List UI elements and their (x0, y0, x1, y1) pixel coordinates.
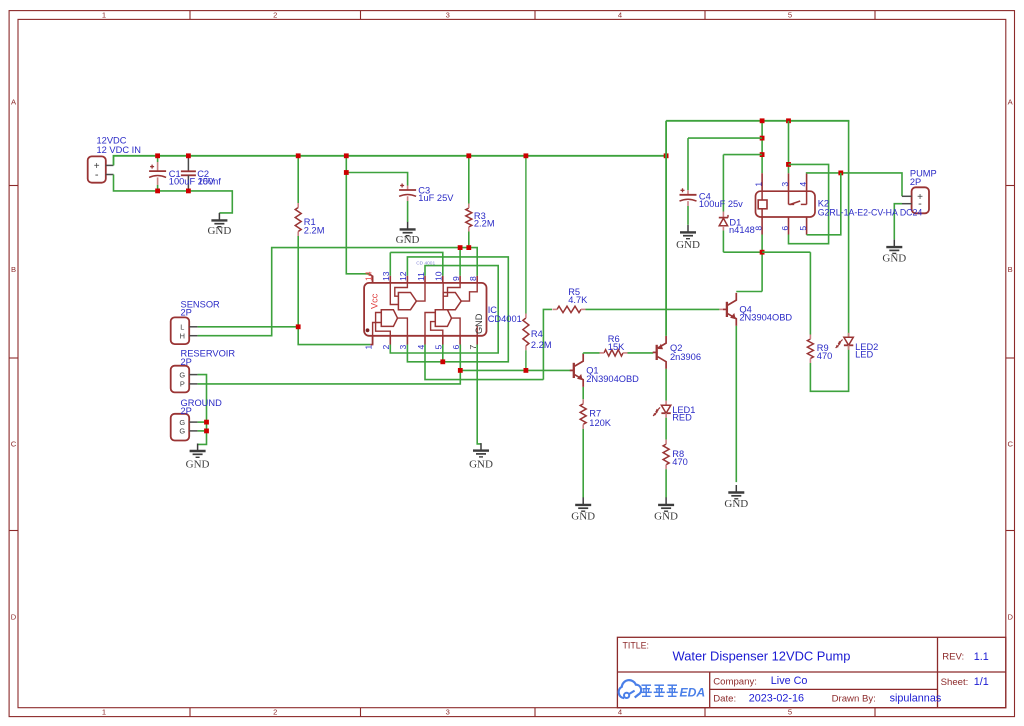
svg-text:GND: GND (474, 313, 484, 334)
svg-text:D: D (11, 613, 17, 622)
svg-text:2N3904OBD: 2N3904OBD (586, 374, 639, 384)
svg-text:C: C (11, 440, 17, 449)
svg-text:4: 4 (618, 11, 622, 20)
svg-text:G2RL-1A-E2-CV-HA DC24: G2RL-1A-E2-CV-HA DC24 (818, 207, 923, 217)
svg-text:1uF 25V: 1uF 25V (418, 193, 454, 203)
svg-text:2P: 2P (181, 406, 192, 416)
svg-text:3: 3 (446, 11, 450, 20)
svg-text:2n3906: 2n3906 (670, 352, 701, 362)
svg-text:B: B (1008, 265, 1013, 274)
svg-text:470: 470 (672, 457, 688, 467)
svg-text:5: 5 (788, 11, 792, 20)
svg-text:7: 7 (468, 345, 478, 350)
svg-text:n4148: n4148 (729, 225, 755, 235)
svg-text:4: 4 (798, 182, 808, 187)
svg-text:2N3904OBD: 2N3904OBD (739, 313, 792, 323)
svg-text:B: B (11, 265, 16, 274)
svg-text:2023-02-16: 2023-02-16 (749, 692, 804, 704)
svg-text:6: 6 (451, 345, 461, 350)
svg-text:sipulannas: sipulannas (890, 693, 942, 705)
svg-text:G: G (179, 418, 185, 427)
svg-text:8: 8 (753, 226, 763, 231)
svg-text:120K: 120K (589, 418, 612, 428)
svg-text:3: 3 (780, 182, 790, 187)
svg-text:GND: GND (469, 458, 493, 470)
svg-text:GND: GND (654, 510, 678, 522)
svg-text:1: 1 (364, 345, 374, 350)
svg-text:Vcc: Vcc (370, 293, 380, 309)
svg-text:2: 2 (273, 708, 277, 717)
svg-text:15K: 15K (608, 342, 625, 352)
svg-text:Company:: Company: (713, 676, 757, 687)
svg-text:GND: GND (186, 458, 210, 470)
svg-text:5: 5 (798, 226, 808, 231)
svg-text:12VDC: 12VDC (97, 136, 127, 146)
svg-text:Drawn By:: Drawn By: (832, 693, 876, 704)
svg-text:GND: GND (571, 510, 595, 522)
svg-text:12 VDC IN: 12 VDC IN (97, 145, 141, 155)
svg-text:TITLE:: TITLE: (623, 640, 649, 650)
svg-text:1: 1 (102, 708, 106, 717)
svg-text:2P: 2P (910, 177, 921, 187)
svg-text:9: 9 (451, 276, 461, 281)
svg-text:2: 2 (273, 11, 277, 20)
svg-text:CD4001: CD4001 (488, 314, 522, 324)
svg-text:10: 10 (434, 271, 444, 281)
svg-text:4.7K: 4.7K (568, 295, 588, 305)
svg-text:2.2M: 2.2M (304, 225, 325, 235)
svg-text:GND: GND (676, 239, 700, 251)
svg-text:14: 14 (364, 271, 374, 281)
svg-text:5: 5 (434, 345, 444, 350)
svg-text:LED: LED (855, 349, 873, 359)
svg-text:D: D (1007, 613, 1013, 622)
svg-text:5: 5 (788, 708, 792, 717)
svg-text:12: 12 (398, 271, 408, 281)
svg-text:100uF 25v: 100uF 25v (699, 199, 743, 209)
svg-text:Live Co: Live Co (771, 675, 808, 687)
svg-text:2.2M: 2.2M (531, 340, 552, 350)
svg-text:13: 13 (381, 271, 391, 281)
svg-text:4: 4 (416, 345, 426, 350)
svg-text:1: 1 (102, 11, 106, 20)
svg-text:Sheet:: Sheet: (941, 677, 969, 688)
svg-text:3: 3 (398, 345, 408, 350)
svg-text:1.1: 1.1 (974, 651, 989, 663)
svg-text:4: 4 (618, 708, 622, 717)
svg-text:P: P (180, 380, 185, 389)
svg-text:1: 1 (753, 182, 763, 187)
svg-text:470: 470 (817, 351, 833, 361)
svg-text:-: - (95, 169, 99, 181)
svg-text:Water Dispenser 12VDC Pump: Water Dispenser 12VDC Pump (673, 648, 851, 663)
svg-text:11: 11 (416, 272, 426, 281)
svg-text:2.2M: 2.2M (474, 219, 495, 229)
svg-text:EDA: EDA (680, 685, 706, 699)
svg-text:GND: GND (207, 225, 231, 237)
svg-text:GND: GND (396, 234, 420, 246)
svg-text:GND: GND (724, 498, 748, 510)
svg-text:RED: RED (672, 413, 692, 423)
svg-text:H: H (180, 332, 185, 341)
svg-text:Date:: Date: (713, 693, 736, 704)
svg-text:2P: 2P (181, 357, 192, 367)
svg-text:CD 4001: CD 4001 (416, 260, 435, 266)
svg-text:-: - (918, 198, 922, 210)
svg-text:G: G (179, 370, 185, 379)
svg-text:G: G (179, 427, 185, 436)
svg-text:6: 6 (780, 226, 790, 231)
svg-text:GND: GND (882, 253, 906, 265)
svg-text:REV:: REV: (942, 652, 964, 663)
svg-text:8: 8 (468, 276, 478, 281)
svg-text:1/1: 1/1 (974, 676, 989, 688)
svg-text:2P: 2P (181, 308, 192, 318)
svg-text:3: 3 (446, 708, 450, 717)
svg-text:100nf: 100nf (198, 177, 222, 187)
svg-text:2: 2 (381, 345, 391, 350)
svg-text:C: C (1007, 440, 1013, 449)
svg-text:R4: R4 (531, 329, 543, 339)
svg-text:L: L (180, 323, 184, 332)
